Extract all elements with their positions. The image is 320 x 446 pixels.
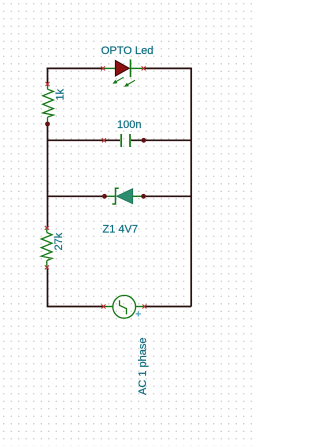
pin cross R2 bottom [45,265,49,269]
wire left vertical middle (R1 bottom to R2 top) [47,124,49,228]
AC source [104,295,145,318]
resistor 1k [43,84,54,124]
capacitor 100n [121,134,130,147]
wire zener row left [48,195,105,197]
resistor 27k [41,228,52,268]
svg-text:AC 1 phase: AC 1 phase [137,338,149,395]
junction node zener right [141,194,146,199]
pin cross source left [102,305,106,309]
wire bottom-right segment [145,306,192,308]
wire right vertical [190,68,192,307]
wire left vertical lower (R2 bottom to bottom rail) [47,267,49,306]
wire top-left segment [47,67,103,69]
wire capacitor row right [131,139,191,141]
wire top-right segment [144,67,191,69]
LED OPTO [103,59,144,86]
svg-text:Z1 4V7: Z1 4V7 [103,224,138,236]
junction node capacitor right [141,138,146,143]
junction node R1 bottom [45,122,50,127]
wire capacitor row left [48,139,121,141]
svg-text:1k: 1k [55,88,67,100]
pin cross R2 top [45,226,49,230]
zener diode Z1 [105,188,144,204]
pin cross source right [143,305,147,309]
pin cross LED right [142,66,146,70]
svg-text:100n: 100n [117,119,141,131]
pin cross R1 top [46,82,50,86]
pin cross capacitor left [102,138,106,142]
svg-text:OPTO Led: OPTO Led [101,45,153,57]
wire bottom-left segment [47,306,104,308]
wire zener row right [144,195,192,197]
junction node zener left [102,194,107,199]
svg-text:27k: 27k [53,232,65,250]
pin cross LED left [101,66,105,70]
wire left vertical upper (corner to R1 pin) [47,68,49,84]
